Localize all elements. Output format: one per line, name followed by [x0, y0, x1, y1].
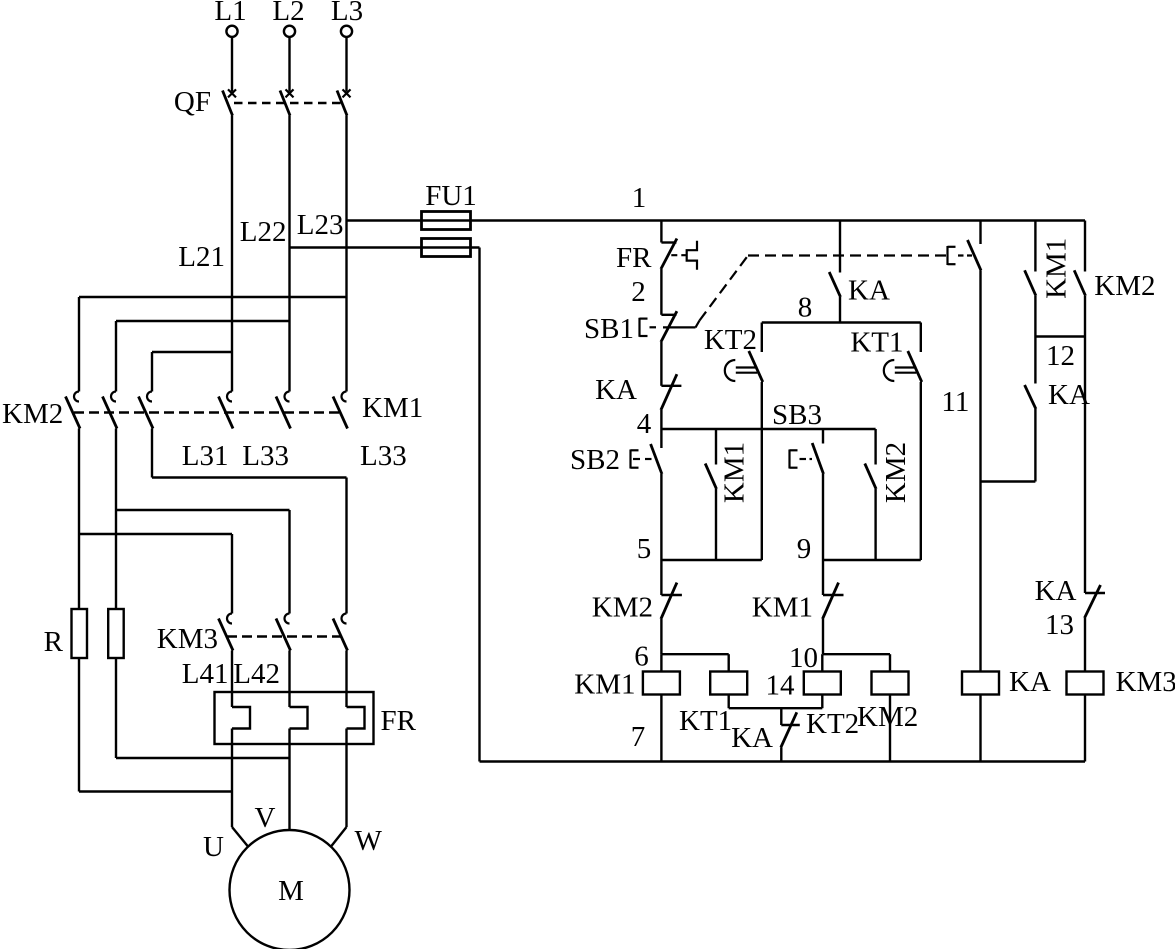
svg-text:KM2: KM2	[857, 701, 918, 733]
svg-text:KA: KA	[1035, 575, 1077, 607]
svg-text:L42: L42	[233, 658, 280, 690]
svg-text:L23: L23	[297, 209, 344, 241]
svg-text:13: 13	[1045, 609, 1074, 641]
svg-text:KM2: KM2	[880, 442, 912, 503]
svg-text:L21: L21	[178, 241, 225, 273]
svg-text:KA: KA	[731, 722, 773, 754]
svg-text:KT2: KT2	[704, 324, 757, 356]
svg-text:KM1: KM1	[1041, 238, 1073, 299]
svg-text:SB1: SB1	[584, 313, 634, 345]
svg-text:L2: L2	[272, 0, 304, 27]
svg-text:12: 12	[1046, 340, 1075, 372]
svg-text:5: 5	[637, 533, 652, 565]
svg-text:FR: FR	[616, 242, 652, 274]
svg-text:SB2: SB2	[570, 444, 620, 476]
svg-text:KM2: KM2	[2, 398, 63, 430]
svg-text:KT1: KT1	[850, 327, 903, 359]
svg-text:W: W	[355, 825, 383, 857]
svg-text:KM1: KM1	[362, 392, 423, 424]
svg-text:L33: L33	[360, 440, 407, 472]
svg-text:KM1: KM1	[752, 592, 813, 624]
svg-text:L3: L3	[331, 0, 363, 27]
svg-text:L33: L33	[242, 440, 289, 472]
svg-text:KA: KA	[1048, 379, 1090, 411]
svg-text:QF: QF	[174, 86, 211, 118]
svg-text:R: R	[44, 626, 64, 658]
svg-text:V: V	[255, 802, 276, 834]
svg-text:M: M	[278, 875, 304, 907]
svg-text:KM3: KM3	[1116, 666, 1175, 698]
svg-text:4: 4	[637, 408, 652, 440]
svg-text:FR: FR	[381, 705, 417, 737]
svg-text:KT1: KT1	[679, 705, 732, 737]
svg-text:9: 9	[797, 533, 812, 565]
svg-text:KM2: KM2	[1094, 270, 1155, 302]
svg-text:2: 2	[631, 276, 646, 308]
svg-text:14: 14	[766, 670, 796, 702]
svg-text:KM2: KM2	[592, 592, 653, 624]
svg-text:KA: KA	[595, 374, 637, 406]
svg-text:L1: L1	[214, 0, 246, 27]
svg-text:U: U	[203, 831, 224, 863]
svg-text:KM3: KM3	[157, 623, 218, 655]
svg-text:KA: KA	[1009, 666, 1051, 698]
svg-text:L31: L31	[182, 440, 229, 472]
svg-text:11: 11	[941, 386, 969, 418]
svg-text:L41: L41	[182, 658, 229, 690]
svg-text:KT2: KT2	[806, 708, 859, 740]
svg-text:L22: L22	[240, 216, 287, 248]
svg-text:7: 7	[631, 721, 646, 753]
svg-text:1: 1	[632, 182, 647, 214]
svg-text:6: 6	[634, 641, 649, 673]
svg-text:KM1: KM1	[574, 669, 635, 701]
svg-text:KA: KA	[848, 275, 890, 307]
svg-text:FU1: FU1	[425, 180, 477, 212]
svg-text:8: 8	[798, 292, 813, 324]
svg-text:KM1: KM1	[719, 442, 751, 503]
svg-text:SB3: SB3	[772, 399, 822, 431]
